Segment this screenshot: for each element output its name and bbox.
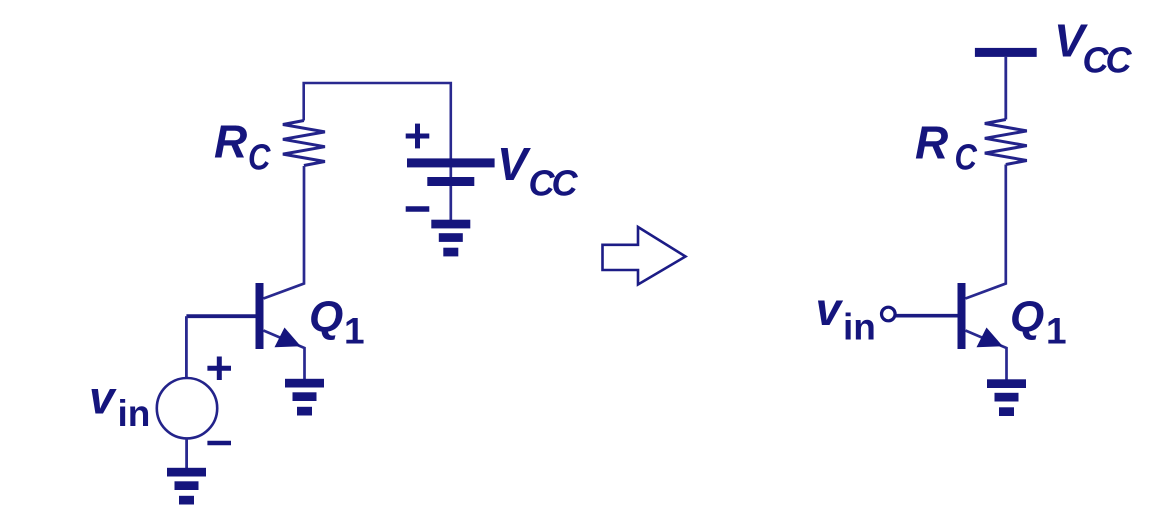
svg-text:Q: Q <box>1010 292 1044 341</box>
svg-text:C: C <box>955 138 978 178</box>
svg-text:v: v <box>816 283 844 335</box>
svg-text:V: V <box>497 138 531 190</box>
svg-text:R: R <box>915 117 948 169</box>
svg-text:C: C <box>248 138 271 178</box>
svg-text:Q: Q <box>309 292 343 341</box>
svg-text:in: in <box>843 307 876 348</box>
svg-text:1: 1 <box>1046 311 1067 352</box>
svg-text:v: v <box>89 371 117 423</box>
svg-text:R: R <box>214 116 247 168</box>
svg-text:in: in <box>118 393 151 434</box>
svg-text:CC: CC <box>1083 40 1133 81</box>
svg-text:1: 1 <box>344 311 365 352</box>
svg-text:CC: CC <box>529 163 579 204</box>
